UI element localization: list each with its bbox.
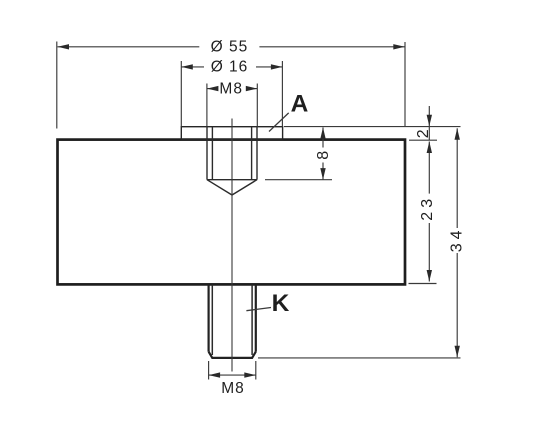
svg-text:K: K — [272, 290, 290, 317]
svg-text:A: A — [291, 90, 309, 117]
svg-text:23: 23 — [419, 195, 436, 221]
svg-text:Ø 55: Ø 55 — [211, 39, 249, 56]
svg-text:Ø 16: Ø 16 — [211, 59, 249, 76]
svg-text:M8: M8 — [219, 81, 243, 98]
svg-text:34: 34 — [449, 227, 466, 253]
svg-text:8: 8 — [315, 147, 332, 160]
svg-text:M8: M8 — [221, 380, 245, 397]
svg-text:2: 2 — [415, 125, 432, 138]
